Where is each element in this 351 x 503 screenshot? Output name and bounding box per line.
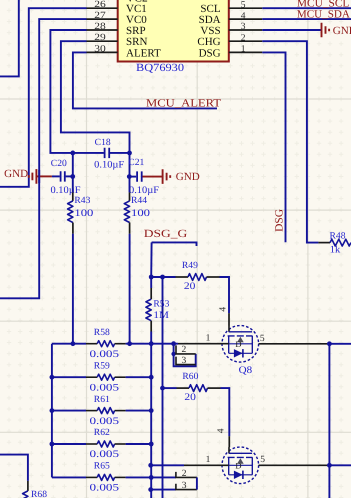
junction SRP node bbox=[70, 151, 75, 156]
svg-text:0.005: 0.005 bbox=[90, 382, 120, 393]
pin 2 of Q8 bbox=[176, 345, 196, 354]
svg-text:SRN: SRN bbox=[126, 36, 147, 48]
svg-text:3: 3 bbox=[182, 356, 187, 366]
svg-text:0.10µF: 0.10µF bbox=[129, 185, 159, 196]
svg-text:1M: 1M bbox=[153, 310, 169, 321]
wire Q8 source pins tie bbox=[174, 344, 196, 367]
wire R62 row left bbox=[52, 443, 86, 445]
svg-text:1: 1 bbox=[206, 455, 211, 465]
junction C20 right node bbox=[70, 174, 75, 179]
gate bar bbox=[228, 447, 230, 453]
svg-text:3: 3 bbox=[241, 22, 246, 32]
wire SRP bbox=[50, 30, 104, 153]
wire R65 row right to Q9 pin2 bbox=[126, 476, 176, 478]
wire VC0 bbox=[0, 19, 87, 298]
power port GND (right of C21) bbox=[143, 176, 163, 178]
svg-text:DSG: DSG bbox=[274, 209, 286, 232]
svg-text:2: 2 bbox=[182, 469, 187, 479]
sense bus left vertical bbox=[51, 344, 53, 478]
svg-text:C20: C20 bbox=[51, 159, 67, 169]
junction R43 / sense row bbox=[71, 341, 76, 346]
svg-text:R68: R68 bbox=[31, 490, 47, 498]
svg-text:100: 100 bbox=[74, 208, 93, 219]
pin 2 of Q9 bbox=[176, 472, 197, 478]
svg-text:20: 20 bbox=[184, 281, 196, 292]
wire R61 row left bbox=[52, 410, 86, 412]
junction R61 col A bbox=[149, 408, 154, 413]
svg-text:R48: R48 bbox=[330, 231, 346, 241]
pin 4 of Q9 bbox=[228, 436, 230, 447]
resistor R58 bbox=[86, 343, 97, 345]
wire R59 row left bbox=[52, 376, 86, 378]
svg-text:5: 5 bbox=[260, 334, 265, 344]
svg-text:28: 28 bbox=[94, 22, 106, 32]
wire R44 to sense row bbox=[129, 234, 131, 344]
svg-text:5: 5 bbox=[260, 455, 265, 465]
resistor R65 bbox=[86, 476, 97, 478]
wire R65 row left bbox=[52, 476, 86, 478]
junction col A / Q9 pin3 row bbox=[148, 487, 153, 492]
resistor R59 bbox=[86, 376, 97, 378]
svg-text:C21: C21 bbox=[128, 158, 144, 168]
wire VSS to GND bbox=[262, 29, 321, 31]
svg-text:R49: R49 bbox=[182, 261, 198, 271]
wire SRN bbox=[61, 41, 130, 153]
wire R61 row right bbox=[126, 410, 152, 412]
svg-text:R61: R61 bbox=[94, 395, 110, 405]
capacitor C21 bbox=[129, 176, 136, 178]
wire R58 row left bbox=[52, 343, 86, 345]
pin 4 of Q8 bbox=[228, 313, 230, 326]
substrate arrow bbox=[237, 458, 244, 463]
junction R59 left bus bbox=[50, 375, 55, 380]
resistor R49 bbox=[151, 276, 175, 278]
pin 26 VC1 (left) bbox=[87, 7, 118, 9]
pin 27 VC0 (left) bbox=[87, 18, 118, 20]
wire source column A to bottom edge bbox=[150, 344, 152, 498]
transistor circle bbox=[222, 447, 259, 484]
junction Q8 drain node bbox=[327, 341, 332, 346]
svg-text:R44: R44 bbox=[131, 196, 147, 206]
resistor R53 bbox=[150, 277, 152, 288]
svg-text:29: 29 bbox=[94, 33, 106, 43]
pin 1 of Q8 bbox=[178, 343, 229, 345]
junction col B top bbox=[160, 275, 165, 280]
svg-text:R58: R58 bbox=[94, 328, 110, 338]
svg-text:R65: R65 bbox=[94, 462, 110, 472]
channel bar bbox=[228, 335, 253, 337]
svg-text:R59: R59 bbox=[94, 361, 110, 371]
pin 5 SCL (right) bbox=[229, 7, 262, 9]
wire DSG_G stub bbox=[152, 242, 197, 246]
svg-text:5: 5 bbox=[241, 0, 246, 10]
junction R44 / sense row bbox=[127, 341, 132, 346]
junction R65 col A bbox=[149, 475, 154, 480]
svg-text:0.005: 0.005 bbox=[90, 449, 120, 460]
svg-text:D: D bbox=[235, 339, 241, 349]
svg-text:26: 26 bbox=[94, 0, 106, 10]
wire SRP node to C20 node bbox=[72, 153, 74, 177]
wire Q9 source tie right bbox=[196, 477, 198, 489]
junction col A / sense row bbox=[149, 341, 154, 346]
junction gate node bbox=[149, 275, 154, 280]
pin 28 SRP (left) bbox=[87, 29, 118, 31]
junction SRN node bbox=[127, 151, 132, 156]
wire DSG_G down to gate node bbox=[150, 242, 152, 277]
transistor circle bbox=[222, 326, 259, 363]
wire Q9 drain to bottom edge bbox=[328, 465, 330, 498]
IC U1 BQ76930 body bbox=[118, 0, 229, 62]
svg-text:0.005: 0.005 bbox=[90, 483, 120, 494]
svg-text:R53: R53 bbox=[153, 300, 169, 310]
resistor R62 bbox=[86, 443, 97, 445]
wire drain node down to Q9 bbox=[328, 344, 330, 466]
wire SDA bbox=[262, 18, 351, 20]
svg-text:100: 100 bbox=[131, 208, 150, 219]
svg-text:CHG: CHG bbox=[197, 36, 220, 48]
junction col B / R60 bbox=[160, 386, 165, 391]
wire R59 row right bbox=[126, 376, 152, 378]
pin 3 of Q9 bbox=[151, 489, 176, 491]
pin 3 of Q8 bbox=[176, 357, 196, 365]
pin 30 ALERT (left) bbox=[87, 51, 118, 53]
wire VC0 (restroke over gnd stub) bbox=[38, 170, 40, 183]
svg-text:0.10µF: 0.10µF bbox=[51, 185, 81, 196]
svg-text:20: 20 bbox=[184, 392, 196, 403]
substrate arrow bbox=[237, 337, 244, 342]
svg-text:Q8: Q8 bbox=[239, 365, 253, 376]
svg-text:R62: R62 bbox=[94, 428, 110, 438]
svg-text:GND: GND bbox=[176, 171, 200, 183]
junction Q8 source branch bbox=[171, 341, 176, 346]
resistor R48 (clipped right) bbox=[318, 242, 330, 244]
junction R61 left bus bbox=[50, 408, 55, 413]
wire drain node to right edge bbox=[329, 343, 351, 345]
capacitor C18 bbox=[105, 148, 110, 158]
wire R60 to Q9 gate bbox=[221, 388, 230, 436]
pin 3 VSS (right) bbox=[229, 29, 262, 31]
resistor R44 bbox=[129, 177, 131, 193]
wire R53 bottom bbox=[150, 332, 152, 344]
svg-text:27: 27 bbox=[94, 11, 106, 21]
wire gate column B to bottom edge bbox=[162, 277, 164, 498]
channel bar bbox=[228, 456, 253, 458]
svg-text:0.10µF: 0.10µF bbox=[94, 159, 124, 170]
pin 4 SDA (right) bbox=[229, 18, 262, 20]
svg-text:4: 4 bbox=[216, 428, 226, 433]
wire DSG down (net stub) bbox=[262, 52, 285, 242]
junction R62 col A bbox=[149, 442, 154, 447]
wire ALERT bbox=[73, 52, 217, 108]
wire Q9 drain to right edge bbox=[329, 464, 351, 466]
svg-text:GND: GND bbox=[4, 168, 28, 180]
svg-text:MCU_SDA: MCU_SDA bbox=[297, 8, 350, 20]
wire to pin 25 (exits top and left edge) bbox=[0, 0, 19, 76]
svg-text:0.005: 0.005 bbox=[90, 349, 120, 360]
wire SRN node down bbox=[129, 153, 131, 177]
svg-text:4: 4 bbox=[219, 307, 229, 312]
wire R49 to Q8 gate bbox=[220, 277, 230, 313]
resistor R60 bbox=[163, 387, 177, 389]
svg-text:1k: 1k bbox=[330, 245, 341, 256]
svg-text:4: 4 bbox=[241, 11, 246, 21]
wire SCL bbox=[262, 7, 351, 9]
junction col A / Q9 pin1 bbox=[148, 463, 153, 468]
svg-text:R43: R43 bbox=[74, 196, 90, 206]
pin 29 SRN (left) bbox=[87, 40, 118, 42]
svg-text:2: 2 bbox=[241, 33, 246, 43]
source/drain taps bbox=[229, 336, 253, 353]
svg-text:1: 1 bbox=[206, 333, 211, 343]
junction R62 left bus bbox=[50, 442, 55, 447]
svg-text:D: D bbox=[235, 461, 241, 471]
source/drain taps bbox=[229, 457, 253, 474]
body diode bbox=[229, 474, 253, 476]
svg-text:MCU_ALERT: MCU_ALERT bbox=[146, 97, 221, 109]
pin 5 of Q9 bbox=[259, 464, 330, 466]
junction C21 node bbox=[127, 174, 132, 179]
svg-text:1: 1 bbox=[241, 45, 246, 55]
resistor R68 (clipped bottom left) bbox=[0, 455, 28, 481]
resistor R43 bbox=[72, 177, 74, 193]
svg-text:30: 30 bbox=[94, 44, 106, 54]
wire R62 row right bbox=[126, 443, 152, 445]
svg-text:3: 3 bbox=[182, 481, 187, 491]
svg-text:R60: R60 bbox=[182, 372, 198, 382]
svg-text:GND: GND bbox=[333, 25, 351, 37]
svg-text:DSG_G: DSG_G bbox=[144, 228, 188, 240]
wire R43 to sense row bbox=[72, 234, 74, 344]
pin 5 of Q8 bbox=[259, 343, 330, 345]
gate bar bbox=[228, 326, 230, 332]
pin 1 DSG (right) bbox=[229, 51, 262, 53]
svg-text:ALERT: ALERT bbox=[126, 47, 161, 59]
svg-text:C18: C18 bbox=[95, 138, 111, 148]
pin 2 CHG (right) bbox=[229, 40, 262, 42]
svg-text:0.005: 0.005 bbox=[90, 416, 120, 427]
svg-text:2: 2 bbox=[182, 345, 187, 355]
svg-text:SRP: SRP bbox=[126, 25, 146, 37]
junction Q9 drain node bbox=[327, 463, 332, 468]
wire VC1 bbox=[0, 8, 87, 187]
junction R59 col A bbox=[149, 375, 154, 380]
svg-text:VSS: VSS bbox=[200, 25, 220, 37]
wire CHG down bbox=[262, 41, 318, 242]
power port GND (VSS) bbox=[322, 23, 330, 38]
resistor R61 bbox=[86, 410, 97, 412]
svg-text:BQ76930: BQ76930 bbox=[136, 62, 185, 74]
capacitor C20 bbox=[52, 175, 60, 177]
svg-text:DSG: DSG bbox=[199, 47, 221, 59]
pin 1 of Q9 bbox=[151, 464, 184, 466]
body diode bbox=[229, 352, 253, 354]
wire R58 right to Q8 bbox=[126, 343, 178, 345]
